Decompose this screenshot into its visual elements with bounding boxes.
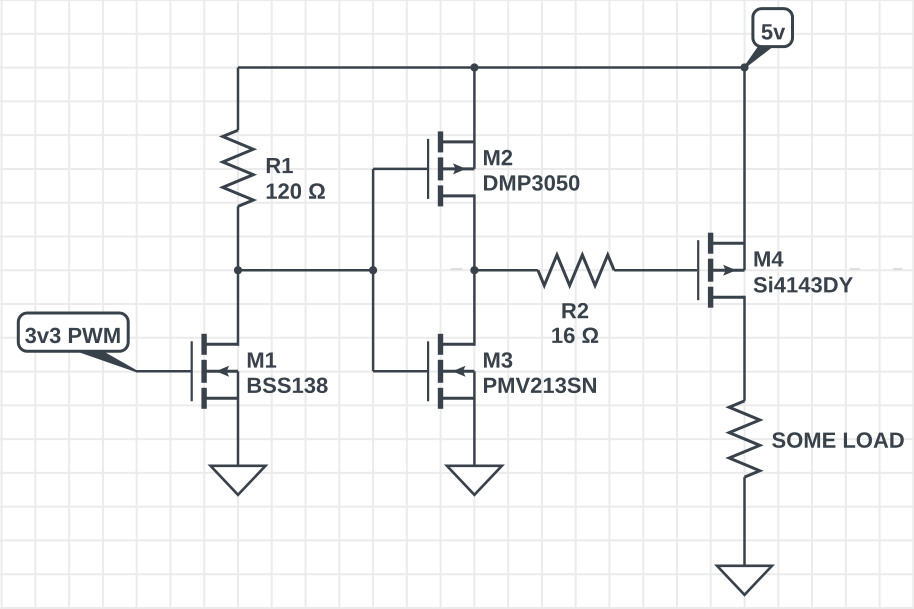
wire R1 bottom lead (237, 206, 240, 270)
node junction 5v (740, 63, 748, 71)
node junction bus M3 drain (470, 266, 478, 274)
resistor SOME LOAD (729, 401, 760, 477)
label R2 value (552, 303, 598, 343)
node label 5v flag (745, 9, 793, 68)
wire 5v branch down to M4 drain (743, 68, 746, 271)
label M1 value (248, 353, 328, 394)
wire M4 source down to load (743, 296, 746, 401)
label M2 value (484, 150, 579, 191)
ground (M3 source) (447, 466, 502, 495)
wire top rail (238, 66, 745, 69)
label M3 value (484, 352, 596, 393)
wire M2 gate to M3 gate vertical (372, 169, 375, 371)
wire M3 gate lead (373, 370, 428, 373)
wire M1 drain (237, 270, 240, 346)
resistor R2 (538, 255, 614, 286)
wire M3 drain from bus (473, 270, 476, 346)
node junction top M2 drain (470, 63, 478, 71)
node junction bus left (234, 266, 242, 274)
wire M3 source to ground (473, 371, 476, 466)
wire faint ghost dash right of M4 (850, 268, 860, 270)
wire M2 source to bus (473, 194, 476, 270)
ground (load) (717, 566, 772, 595)
ground (M1 source) (211, 466, 266, 495)
wire M2 drain from top rail (473, 68, 476, 169)
wire faint ghost dash near M3 drain (451, 268, 463, 270)
wire middle bus (238, 269, 373, 272)
wire faint ghost dash far right (893, 268, 903, 270)
transistor M3 (NMOS PMV213SN) (428, 334, 474, 409)
transistor M1 (NMOS BSS138) (192, 334, 238, 409)
transistor M2 (PMOS DMP3050) (428, 131, 474, 206)
wire R2 right lead (614, 269, 697, 272)
wire load to ground (743, 477, 746, 566)
label M4 value (754, 251, 853, 292)
wire R1 top lead (237, 68, 240, 131)
node label 3v3 PWM flag (18, 313, 136, 371)
transistor M4 (PMOS Si4143DY) (698, 233, 744, 308)
resistor R1 (223, 130, 254, 206)
wire M1 source to ground (237, 371, 240, 466)
label R1 value (267, 158, 325, 199)
label SOME LOAD (772, 432, 904, 448)
wire M1 gate lead (136, 370, 192, 373)
wire R2 left lead (474, 269, 538, 272)
wire M2 gate lead (373, 168, 428, 171)
node junction bus gate branch (369, 266, 377, 274)
